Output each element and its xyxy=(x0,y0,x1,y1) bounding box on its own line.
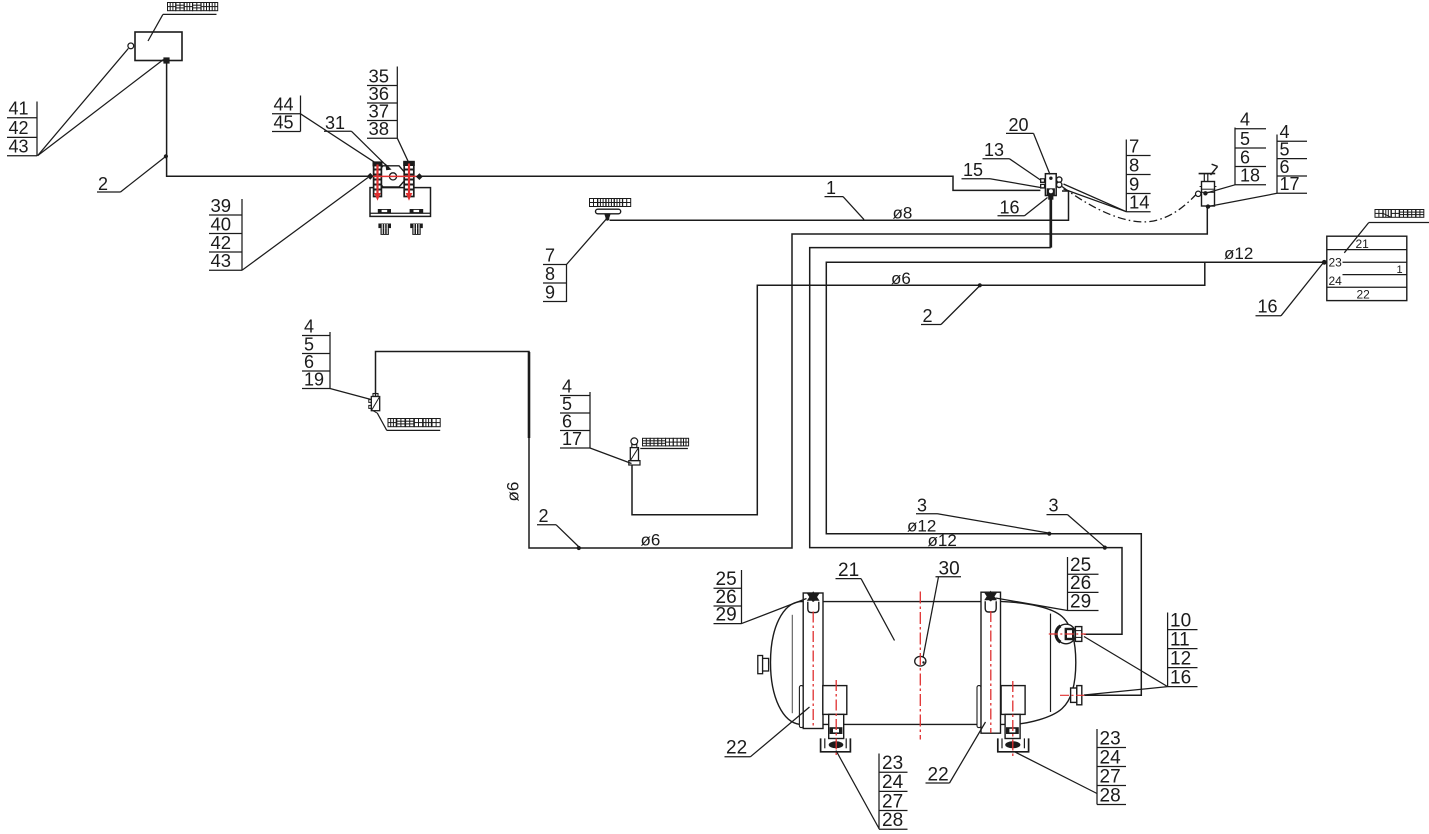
svg-text:16: 16 xyxy=(1258,297,1278,317)
svg-text:28: 28 xyxy=(1100,785,1121,806)
hand valve port dots xyxy=(1203,191,1207,195)
svg-text:16: 16 xyxy=(1170,667,1191,688)
svg-text:7: 7 xyxy=(1129,135,1139,156)
air horn assembly bracket plate xyxy=(370,188,431,217)
label clutch-slave-pump (CJK) xyxy=(590,199,631,207)
left strap top bolt (star) xyxy=(807,591,820,603)
svg-text:10: 10 xyxy=(1170,610,1191,631)
label stack 25/26/29 left xyxy=(714,569,807,625)
label 30 drain xyxy=(923,559,961,658)
svg-text:2: 2 xyxy=(923,306,933,326)
drain hole item 30 on tank xyxy=(915,656,926,666)
svg-text:8: 8 xyxy=(545,264,555,284)
svg-text:9: 9 xyxy=(545,282,555,302)
four-circuit protection valve box xyxy=(1327,236,1407,301)
left tank leg bracket xyxy=(823,686,847,715)
svg-text:20: 20 xyxy=(1009,115,1029,135)
tank check valve fitting (items 10/11/12/16) round xyxy=(1056,624,1082,644)
pipe ø12 from component 13 bottom to tank check valve xyxy=(810,248,1122,635)
svg-text:17: 17 xyxy=(1280,174,1300,194)
svg-text:ø6: ø6 xyxy=(504,482,523,502)
red centerline left foot bolt xyxy=(835,680,837,756)
svg-text:22: 22 xyxy=(928,765,949,786)
svg-text:29: 29 xyxy=(716,604,737,625)
label stack 4/5/6/17 middle xyxy=(560,376,632,463)
air tank left elliptical head xyxy=(771,602,801,725)
label stack 7/8/9/14 hose xyxy=(1064,135,1151,212)
label 3 first xyxy=(916,495,1049,533)
right strap top bolt (star) xyxy=(984,591,997,603)
red centerline tank middle (item 30 axis) xyxy=(919,592,921,740)
label 16 upper xyxy=(998,197,1048,217)
center circle of horn body xyxy=(389,173,396,180)
label 20 xyxy=(1006,115,1050,175)
svg-text:7: 7 xyxy=(545,245,555,265)
svg-text:ø12: ø12 xyxy=(1224,244,1253,263)
pipe air-horn and hand-valve circuit ø6 xyxy=(376,208,1208,549)
svg-text:42: 42 xyxy=(9,118,29,138)
svg-text:5: 5 xyxy=(1240,129,1250,149)
label four-circuit-protection-valve (CJK) with underline and leader xyxy=(1344,210,1429,253)
svg-text:1: 1 xyxy=(1397,264,1403,276)
component 13 right ports (figure-8) xyxy=(1057,177,1062,188)
clutch slave pump (li he qi fen beng) symbol xyxy=(596,209,621,221)
node dot on ø6 line (target of middle label 2) xyxy=(978,283,982,287)
right leg nut xyxy=(1006,727,1019,734)
svg-text:11: 11 xyxy=(1170,629,1190,650)
hand control valve body xyxy=(1200,182,1217,207)
svg-text:29: 29 xyxy=(1070,591,1091,612)
red down arrow left horn xyxy=(374,165,381,201)
svg-text:1: 1 xyxy=(826,178,836,198)
pipe thick segment of air-horn riser xyxy=(528,352,531,438)
air tank right weld seam xyxy=(1050,614,1052,712)
tank lower port fitting xyxy=(1071,686,1082,705)
svg-text:21: 21 xyxy=(838,560,859,581)
label exhaust-valve-control-box (CJK) with underline and leader xyxy=(148,3,218,42)
port circle on left edge of control box xyxy=(128,43,134,49)
label 15 xyxy=(962,160,1041,188)
label stack 23/24/27/28 center xyxy=(836,751,908,832)
right tank leg bracket xyxy=(1001,686,1025,715)
svg-text:16: 16 xyxy=(1000,197,1020,217)
svg-text:22: 22 xyxy=(1357,288,1371,302)
svg-text:23: 23 xyxy=(1329,256,1343,270)
svg-text:12: 12 xyxy=(1170,648,1191,669)
left mounting plug below bracket xyxy=(378,224,391,235)
port square on bottom edge of control box xyxy=(163,57,169,63)
right horn fitting (items 35-38) xyxy=(403,161,415,197)
label 2 middle xyxy=(921,286,980,326)
svg-text:38: 38 xyxy=(369,118,390,139)
svg-text:27: 27 xyxy=(1100,766,1121,787)
svg-text:43: 43 xyxy=(9,137,29,157)
red centerline left strap xyxy=(812,612,814,728)
svg-text:23: 23 xyxy=(1100,728,1121,749)
label stack 44/45 xyxy=(272,95,376,164)
label stack 25/26/29 right xyxy=(996,555,1099,612)
svg-text:41: 41 xyxy=(9,99,29,119)
pipe main ø12 from tank fitting to four-circuit protection valve xyxy=(826,262,1327,695)
label 16 lower xyxy=(1256,263,1324,317)
svg-text:4: 4 xyxy=(304,316,314,336)
svg-text:ø6: ø6 xyxy=(891,269,911,288)
air tank left weld seam xyxy=(791,615,793,713)
left pipe nub of horn assembly xyxy=(367,173,374,180)
right leg lower stem xyxy=(1005,714,1020,738)
right strap nut below bolt xyxy=(985,601,996,612)
svg-text:24: 24 xyxy=(882,772,904,793)
node dot on control-box pipe (target of label 2) xyxy=(164,154,168,158)
red centerline through lower fitting xyxy=(1060,694,1086,696)
svg-text:28: 28 xyxy=(882,810,903,831)
svg-text:43: 43 xyxy=(211,250,232,271)
exhaust brake butterfly valve (pai qi zhi dong die fa) xyxy=(629,438,640,465)
svg-text:19: 19 xyxy=(304,369,324,389)
label stack 10/11/12/16 xyxy=(1084,610,1198,695)
label stack 4/5/6/17 right xyxy=(1210,122,1308,206)
node dot at protection-valve port 23 xyxy=(1322,260,1327,265)
label 2 lower xyxy=(537,506,579,547)
svg-text:6: 6 xyxy=(1240,147,1250,167)
label stack 4/5/6/19 xyxy=(302,316,371,399)
left leg nut xyxy=(830,727,843,734)
component 13 left ports xyxy=(1040,178,1045,188)
label stack 35/36/37/38 xyxy=(367,65,409,163)
svg-text:22: 22 xyxy=(726,738,747,759)
arrowhead of label 31 leader xyxy=(385,163,391,170)
left leg lower stem xyxy=(829,714,844,738)
svg-text:14: 14 xyxy=(1129,192,1150,213)
hose dash-dot flexible line between component 13 and hand brake valve xyxy=(1062,187,1197,222)
svg-text:ø8: ø8 xyxy=(893,204,913,223)
rubber pad under left strap xyxy=(799,686,803,728)
red down arrow right horn xyxy=(406,164,413,201)
pipe clutch slave pump line ø8 to component 13 right port xyxy=(610,191,1069,220)
pipe main line from compressor to component 13 (net 1) xyxy=(422,176,1041,190)
right pipe nub of horn assembly xyxy=(416,173,423,180)
svg-text:8: 8 xyxy=(1129,154,1139,175)
air tank left end port fitting xyxy=(758,656,769,674)
node dot on ø6 line (target of lower label 2) xyxy=(577,546,581,550)
pipe thick drop below component 13 xyxy=(1049,196,1052,248)
red flow centerline through horns xyxy=(370,175,422,177)
label 22 right xyxy=(926,722,986,786)
label stack 4/5/6/18 xyxy=(1207,110,1267,194)
svg-text:2: 2 xyxy=(539,506,549,526)
label 13 xyxy=(983,140,1041,180)
label 1 main line xyxy=(825,178,865,220)
left strap nut below bolt xyxy=(808,602,819,613)
hand valve handle xyxy=(1199,164,1218,181)
air horn hexagonal body item 31 xyxy=(374,166,408,187)
label stack 39/40/42/43 xyxy=(209,178,368,272)
svg-text:ø6: ø6 xyxy=(641,531,661,550)
left mounting strap (items 25/26/29) xyxy=(803,593,823,729)
label 31 horn body xyxy=(324,113,388,167)
right mounting plug below bracket xyxy=(410,224,423,235)
air tank 21 bottom line xyxy=(800,723,1011,725)
svg-text:17: 17 xyxy=(562,429,582,449)
svg-text:24: 24 xyxy=(1329,274,1343,288)
svg-text:15: 15 xyxy=(963,160,983,180)
pipe from exhaust-valve control box down and right to compressor (net 2) xyxy=(167,63,369,176)
label 22 left xyxy=(725,707,810,759)
air tank 21 top line xyxy=(800,601,981,603)
red centerline right strap xyxy=(990,611,992,733)
label 2 top-left xyxy=(97,157,165,194)
label 21 tank xyxy=(836,560,895,641)
label air-horn-solenoid (CJK) with underline and leader xyxy=(378,414,441,431)
left horn fitting (items 44/45) xyxy=(373,161,383,196)
label stack 41/42/43 xyxy=(7,49,164,157)
exhaust valve control box (fei qi men kong zhi fa) xyxy=(135,32,182,61)
air tank right elliptical head xyxy=(1001,601,1076,724)
svg-text:31: 31 xyxy=(325,113,345,133)
svg-text:ø12: ø12 xyxy=(928,531,957,550)
pipe exhaust-brake valve line ø6 joining ø12 main (net 2) xyxy=(632,262,1205,514)
component 13 bottom port block xyxy=(1047,188,1055,199)
svg-text:3: 3 xyxy=(1049,496,1059,516)
label exhaust-brake-valve (CJK) with underline xyxy=(640,438,688,448)
left foot U bracket xyxy=(821,738,851,751)
label stack 23/24/27/28 right xyxy=(1015,728,1126,806)
svg-text:18: 18 xyxy=(1240,166,1260,186)
hand valve left port circle xyxy=(1196,191,1201,196)
svg-text:3: 3 xyxy=(917,495,927,515)
node dots targets of labels 3 on ø12 lines xyxy=(1047,532,1051,536)
svg-text:21: 21 xyxy=(1356,237,1370,251)
svg-text:13: 13 xyxy=(984,140,1004,160)
svg-text:23: 23 xyxy=(882,753,903,774)
svg-text:2: 2 xyxy=(98,174,108,194)
component 13 body (items 13/15/16/20 cluster) xyxy=(1045,174,1056,196)
svg-text:24: 24 xyxy=(1100,747,1122,768)
air horn solenoid valve (qi la ba dian ci fa) xyxy=(369,394,380,414)
label stack 7/8/9 clutch xyxy=(543,219,607,302)
red centerline right foot bolt xyxy=(1012,681,1014,758)
right mounting strap (items 25/26/29) xyxy=(981,592,1001,733)
rubber pad under right strap xyxy=(977,686,981,728)
svg-text:4: 4 xyxy=(1240,110,1250,130)
red centerline through check valve xyxy=(1049,633,1086,635)
label 3 second xyxy=(1047,496,1105,547)
svg-text:45: 45 xyxy=(274,112,294,132)
bracket lower fittings (items 32-34 area) xyxy=(378,209,423,213)
right foot U bracket xyxy=(998,738,1029,751)
